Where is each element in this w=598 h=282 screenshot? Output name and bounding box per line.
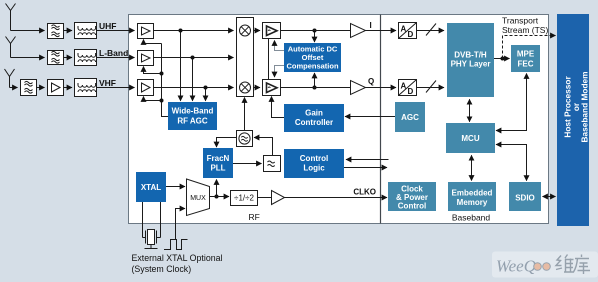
svg-text:L-Band: L-Band <box>99 48 128 58</box>
svg-text:A: A <box>401 82 407 91</box>
svg-text:Q: Q <box>368 77 374 86</box>
svg-text:Controller: Controller <box>295 118 333 127</box>
svg-text:FracN: FracN <box>207 154 230 163</box>
svg-text:SDIO: SDIO <box>515 194 535 203</box>
svg-text:I: I <box>370 21 372 30</box>
svg-text:AGC: AGC <box>401 113 419 122</box>
svg-text:÷1/÷2: ÷1/÷2 <box>234 194 254 203</box>
svg-text:RF AGC: RF AGC <box>177 117 208 126</box>
svg-text:(System Clock): (System Clock) <box>132 264 192 274</box>
svg-text:A: A <box>401 25 407 34</box>
svg-text:D: D <box>408 30 414 39</box>
svg-text:Gain: Gain <box>305 109 323 118</box>
svg-text:WeeQ: WeeQ <box>496 257 536 276</box>
svg-text:MUX: MUX <box>190 195 206 202</box>
svg-text:D: D <box>408 87 414 96</box>
svg-text:PHY Layer: PHY Layer <box>451 60 491 69</box>
svg-text:MCU: MCU <box>461 134 479 143</box>
svg-text:External XTAL Optional: External XTAL Optional <box>132 253 223 263</box>
svg-text:Embedded: Embedded <box>452 189 493 198</box>
svg-text:Control: Control <box>300 154 328 163</box>
svg-text:MPE: MPE <box>517 50 535 59</box>
svg-text:Transport: Transport <box>502 16 539 26</box>
svg-text:Logic: Logic <box>303 164 325 173</box>
svg-text:Baseband: Baseband <box>452 213 491 223</box>
svg-text:Stream (TS): Stream (TS) <box>502 25 548 35</box>
svg-text:PLL: PLL <box>210 164 225 173</box>
svg-text:UHF: UHF <box>99 21 116 31</box>
svg-text:RF: RF <box>249 212 260 222</box>
svg-text:DVB-T/H: DVB-T/H <box>454 51 487 60</box>
svg-text:Wide-Band: Wide-Band <box>172 107 214 116</box>
svg-text:Baseband Modem: Baseband Modem <box>580 72 590 143</box>
svg-text:VHF: VHF <box>99 78 116 88</box>
svg-text:Control: Control <box>398 202 426 211</box>
svg-text:FEC: FEC <box>518 60 534 69</box>
svg-text:XTAL: XTAL <box>141 183 161 192</box>
svg-text:Compensation: Compensation <box>286 62 339 71</box>
svg-text:Memory: Memory <box>457 198 488 207</box>
svg-text:CLKO: CLKO <box>353 188 376 197</box>
